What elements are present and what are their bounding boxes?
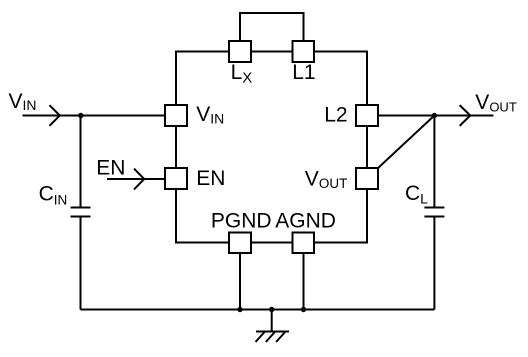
svg-text:PGND: PGND — [211, 209, 272, 232]
svg-text:EN: EN — [196, 167, 225, 190]
svg-text:EN: EN — [96, 156, 125, 179]
svg-text:AGND: AGND — [275, 209, 336, 232]
svg-text:L1: L1 — [292, 61, 315, 84]
svg-text:L2: L2 — [324, 104, 347, 127]
